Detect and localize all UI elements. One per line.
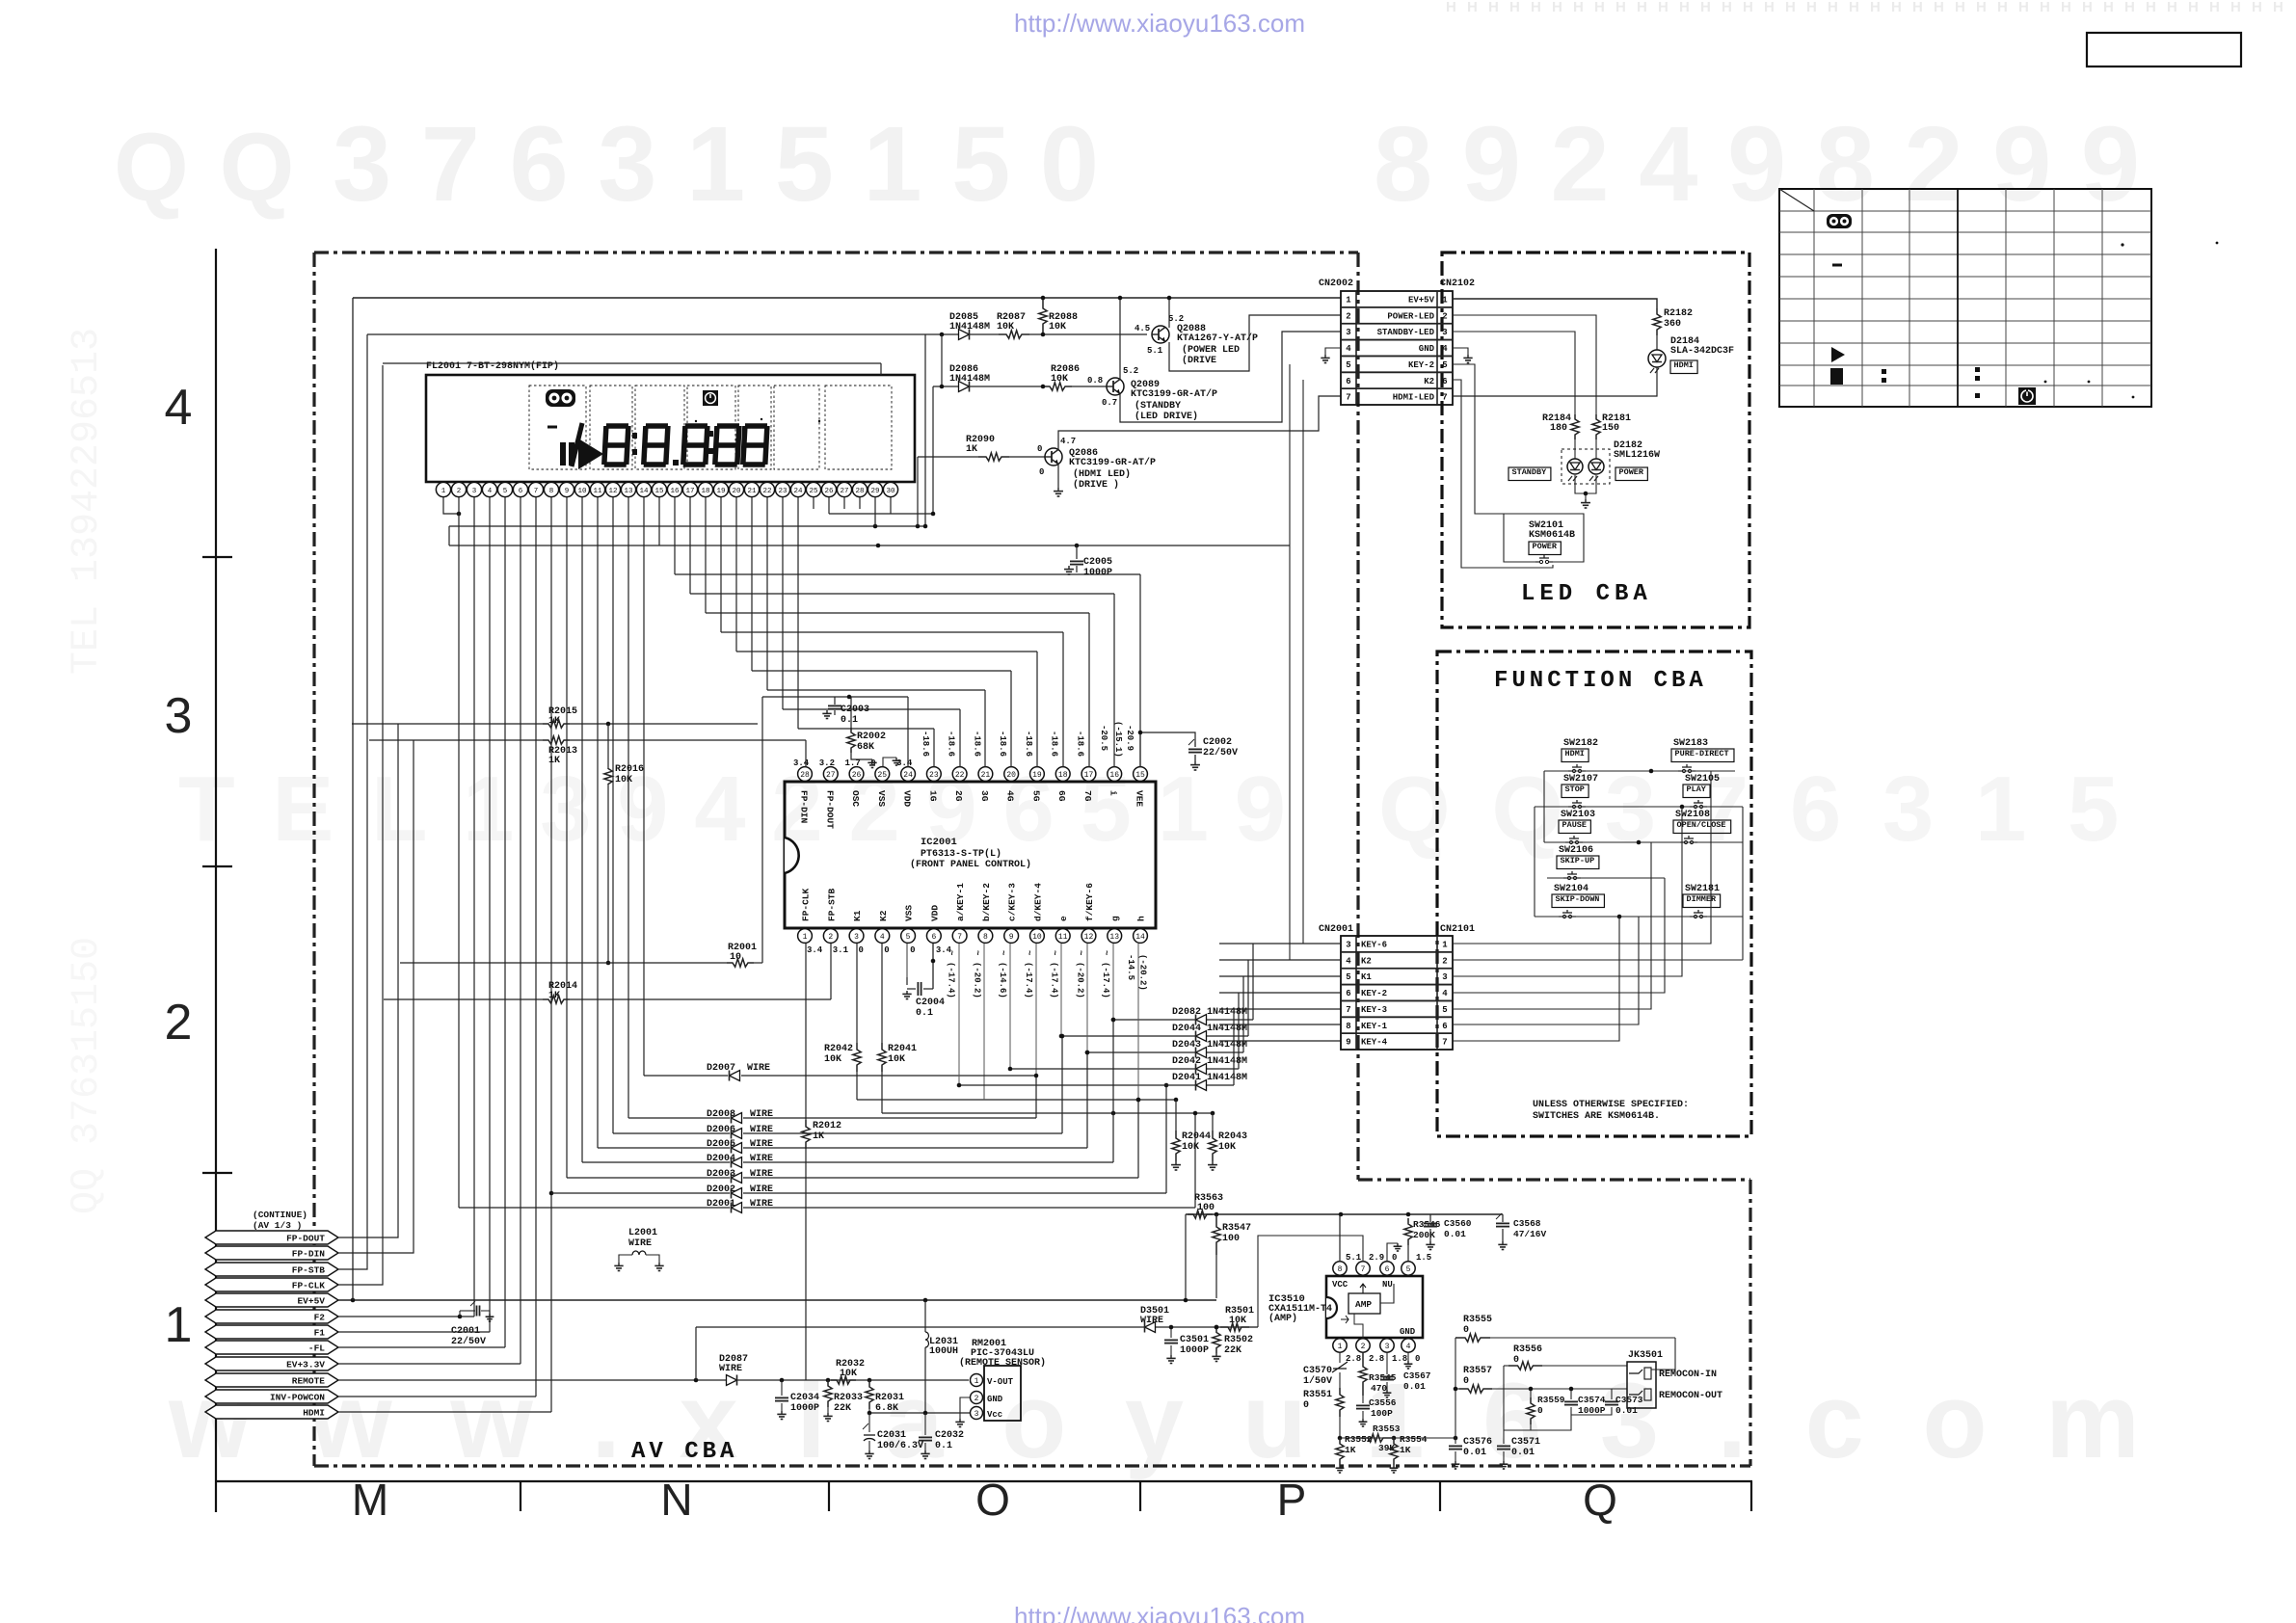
svg-text:7: 7 (1346, 393, 1350, 403)
svg-text:H: H (1594, 0, 1605, 15)
svg-text:GND: GND (987, 1395, 1003, 1404)
svg-text:3G: 3G (979, 790, 990, 802)
svg-text:c/KEY-3: c/KEY-3 (1007, 883, 1018, 921)
wire F1 row (338, 1331, 490, 1333)
Vcc rail (869, 1412, 970, 1414)
table dash symbol (1832, 264, 1842, 267)
wire HDMI row (338, 1411, 551, 1413)
wire REMOTE long (338, 1379, 969, 1381)
svg-text:SML1216W: SML1216W (1614, 450, 1660, 461)
svg-text:H: H (1806, 0, 1817, 15)
CN2102 pin4 ground (1453, 348, 1468, 355)
svg-text:(-14.6): (-14.6) (998, 962, 1007, 998)
svg-text:0: 0 (1039, 467, 1044, 477)
svg-text:19: 19 (1032, 771, 1042, 780)
wire horizontals into CN2001 (1219, 943, 1341, 945)
svg-text:5: 5 (503, 488, 508, 495)
wire FL pin4 vertical to F1 row (489, 497, 491, 1332)
wire stop/play row bus (1535, 806, 1743, 808)
svg-text:1: 1 (1442, 941, 1448, 950)
wire FP-DIN riser (338, 740, 414, 1253)
svg-text:H: H (1891, 0, 1902, 15)
svg-text:D2007: D2007 (707, 1063, 735, 1074)
svg-text:~: ~ (1024, 950, 1033, 955)
svg-text:1: 1 (441, 488, 446, 495)
svg-text:1000P: 1000P (1578, 1405, 1606, 1416)
svg-text:10K: 10K (1182, 1142, 1199, 1153)
resistor R2031 6.8K (866, 1380, 873, 1409)
svg-text:1: 1 (1442, 296, 1448, 306)
svg-text:4: 4 (1406, 1343, 1411, 1351)
net arrow F2 (205, 1310, 338, 1323)
capacitor C2004 0.1 (906, 977, 908, 985)
wire FP-CLK riser (338, 365, 383, 1285)
svg-text:H: H (2103, 0, 2114, 15)
svg-text:2G: 2G (953, 790, 964, 802)
svg-text:TEL 13942296513: TEL 13942296513 (66, 328, 109, 675)
svg-text:R2031: R2031 (875, 1393, 904, 1403)
wire skip-up row bus (1547, 877, 1665, 879)
table diagonal first cell (1779, 189, 1814, 211)
wire FL pin6 vertical to EV+3.3V row (520, 497, 521, 1364)
svg-text:24: 24 (793, 488, 803, 495)
svg-text:C3576: C3576 (1463, 1437, 1492, 1448)
svg-text:-18.6: -18.6 (1050, 731, 1059, 757)
svg-text:VSS: VSS (876, 790, 887, 807)
svg-text:6: 6 (1346, 377, 1350, 386)
wire left col vertical (1543, 771, 1545, 842)
svg-text:Q: Q (1583, 1475, 1617, 1525)
wire e pin11 down (983, 944, 985, 1100)
svg-text:STANDBY: STANDBY (1512, 467, 1548, 477)
svg-text:2.8: 2.8 (1369, 1354, 1384, 1364)
svg-text:4.5: 4.5 (1135, 324, 1150, 333)
resistor R3552 1K (1336, 1438, 1344, 1465)
wire CN2102 pin6 K2 to SW2101 (1453, 380, 1553, 568)
svg-text:LED CBA: LED CBA (1521, 581, 1652, 607)
wire FL pin28 stub (859, 497, 861, 509)
svg-text:H: H (1679, 0, 1690, 15)
resistor R2182 360 (1653, 308, 1661, 335)
LED D2184 SLA-342DC3F HDMI (1656, 335, 1658, 350)
svg-text:DIMMER: DIMMER (1687, 894, 1718, 904)
svg-text:REMOCON-OUT: REMOCON-OUT (1659, 1391, 1722, 1401)
FL2001 pins 1-30 (436, 482, 450, 496)
svg-text:7: 7 (1346, 1005, 1350, 1015)
svg-text:N: N (660, 1475, 692, 1525)
FL2001 digit 8 (a) (604, 426, 628, 465)
svg-text:b/KEY-2: b/KEY-2 (981, 883, 992, 921)
svg-text:-18.6: -18.6 (972, 731, 981, 757)
svg-text:SW2107: SW2107 (1563, 774, 1598, 785)
IC3510 internal wires (1360, 1284, 1366, 1293)
svg-text:7: 7 (1361, 1265, 1366, 1274)
svg-text:H: H (1615, 0, 1626, 15)
svg-text:(LED DRIVE): (LED DRIVE) (1135, 411, 1198, 422)
svg-text:R2044: R2044 (1182, 1131, 1211, 1142)
svg-text:1: 1 (165, 1297, 193, 1353)
net arrow FP-DOUT (205, 1231, 338, 1244)
svg-text:http://www.xiaoyu163.com: http://www.xiaoyu163.com (1014, 1602, 1305, 1623)
svg-text:R3559: R3559 (1537, 1395, 1565, 1405)
svg-text:27: 27 (826, 771, 836, 780)
svg-text:(STANDBY: (STANDBY (1135, 400, 1181, 412)
ruler tick bottom P/Q (1439, 1481, 1441, 1511)
svg-text:0: 0 (859, 945, 864, 955)
svg-text:6: 6 (1442, 1022, 1447, 1031)
wire key-1 riser (1453, 917, 1639, 1024)
svg-text:H: H (2167, 0, 2177, 15)
ground below R2002 (851, 753, 872, 759)
table dot row10 (2132, 396, 2135, 399)
svg-text:NU: NU (1382, 1280, 1393, 1290)
svg-text:8 9 2 4 9 8 2 9 9: 8 9 2 4 9 8 2 9 9 (1374, 105, 2140, 224)
svg-text:Q Q: Q Q (114, 114, 296, 222)
IC3510 notch (1326, 1297, 1337, 1318)
wire FP-CLK pin1 down / R2012 (805, 944, 807, 1120)
svg-text:C2031: C2031 (877, 1430, 906, 1441)
svg-text:7G: 7G (1082, 790, 1093, 802)
capacitor C2031 100/6.3V polarized (868, 1413, 870, 1432)
wire key-3 riser (1453, 842, 1651, 1009)
transistor Q2088 KTA1267-Y-AT/P power led drive (1152, 326, 1169, 343)
wire FL pin5 vertical to -FL row (504, 497, 506, 1347)
svg-text:100UH: 100UH (929, 1346, 958, 1357)
label STANDBY box (1508, 467, 1551, 481)
svg-text:16: 16 (1109, 771, 1119, 780)
net arrow F1 (205, 1325, 338, 1339)
wire R3555 to jack (1651, 1338, 1675, 1370)
svg-text:4: 4 (1346, 344, 1351, 354)
revision box top right (2087, 33, 2241, 67)
svg-text:C3573: C3573 (1615, 1395, 1643, 1405)
svg-text:2: 2 (165, 995, 193, 1051)
wire key-2 riser (1453, 878, 1665, 993)
svg-text:-18.6: -18.6 (1024, 731, 1033, 757)
svg-text:H: H (2230, 0, 2241, 15)
svg-text:H: H (2061, 0, 2071, 15)
svg-text:Vcc: Vcc (987, 1410, 1002, 1420)
svg-text:D2043 1N4148M: D2043 1N4148M (1172, 1040, 1247, 1051)
svg-text:SKIP-DOWN: SKIP-DOWN (1556, 894, 1600, 904)
svg-text:3 7 6 3 1 5 1 5 0: 3 7 6 3 1 5 1 5 0 (333, 105, 1099, 224)
svg-text:(POWER LED: (POWER LED (1182, 344, 1240, 356)
capacitor C3556 100P (1362, 1396, 1364, 1403)
LED standby (1574, 439, 1576, 459)
svg-text:1: 1 (803, 933, 808, 942)
svg-text:VEE: VEE (1135, 790, 1145, 807)
svg-text:PT6313-S-TP(L): PT6313-S-TP(L) (921, 848, 1001, 860)
FL2001 digit 8 (e) (743, 426, 767, 465)
wire FL pin11 vertical to D2005 row (597, 497, 599, 1148)
svg-text:KEY-2: KEY-2 (1361, 989, 1387, 998)
svg-text:O: O (975, 1475, 1010, 1525)
svg-text:1: 1 (1346, 296, 1351, 306)
wire D2184 cathode to CN2102 pin7 (1453, 367, 1657, 396)
svg-text:INV-POWCON: INV-POWCON (270, 1393, 325, 1403)
svg-text:K2: K2 (878, 910, 889, 921)
svg-text:H: H (1849, 0, 1859, 15)
svg-text:11: 11 (593, 488, 602, 495)
svg-text:SLA-342DC3F: SLA-342DC3F (1670, 346, 1734, 357)
front panel control IC2001 outline (785, 782, 1156, 928)
svg-text:H: H (2146, 0, 2156, 15)
capacitor C3568 47/16V polarized (1502, 1214, 1504, 1222)
svg-text:SW2181: SW2181 (1685, 884, 1720, 894)
svg-text:KEY-2: KEY-2 (1408, 360, 1434, 370)
svg-text:68K: 68K (857, 742, 874, 753)
svg-text:0: 0 (910, 945, 915, 955)
svg-text:100/6.3V: 100/6.3V (877, 1440, 923, 1451)
svg-text:10K: 10K (824, 1054, 841, 1065)
svg-text:5: 5 (906, 933, 911, 942)
svg-text:180: 180 (1550, 423, 1567, 434)
svg-text:H: H (2124, 0, 2135, 15)
svg-text:CN2001: CN2001 (1319, 924, 1353, 935)
svg-text:H: H (1509, 0, 1520, 15)
svg-text:C3571: C3571 (1511, 1437, 1540, 1448)
svg-text:VDD: VDD (902, 790, 913, 807)
resistor R2044 10K (1175, 1100, 1177, 1131)
FL2001 segment group dashed boxes (529, 386, 586, 469)
svg-text:H: H (1743, 0, 1753, 15)
svg-text:H: H (1976, 0, 1987, 15)
net arrow FP-DIN (205, 1246, 338, 1260)
wire FL pin25 stub (813, 497, 814, 509)
table small dots row9 (2044, 381, 2047, 384)
transistor Q2086 KTC3199-GR-AT/P hdmi led drive (1045, 448, 1062, 466)
CN2002 pin4 ground (1325, 348, 1341, 355)
svg-text:KTC3199-GR-AT/P: KTC3199-GR-AT/P (1069, 457, 1156, 468)
svg-text:IC2001: IC2001 (921, 837, 957, 848)
svg-text:0: 0 (884, 945, 889, 955)
svg-text:SW2182: SW2182 (1563, 738, 1598, 749)
svg-text:5: 5 (1406, 1265, 1411, 1274)
svg-text:(DRIVE ): (DRIVE ) (1073, 479, 1119, 491)
wire pin7 to amp input net (1258, 1236, 1363, 1327)
wires CN2002 keys down to function area (1289, 364, 1291, 545)
svg-text:3: 3 (854, 933, 859, 942)
wire VDD pin6 node (932, 944, 934, 989)
svg-text:1K: 1K (548, 756, 560, 766)
svg-text:-FL: -FL (308, 1344, 325, 1354)
resistor R3559 0 (1530, 1389, 1532, 1397)
svg-text:P: P (1277, 1475, 1307, 1525)
IC2001 notch (785, 838, 799, 873)
power rail for IC3510 (1186, 1213, 1503, 1215)
svg-text:25: 25 (878, 771, 888, 780)
svg-text:R3555: R3555 (1463, 1315, 1492, 1325)
svg-text:h: h (1136, 916, 1147, 921)
net arrow INV-POWCON (205, 1390, 338, 1403)
svg-text:C2004: C2004 (916, 998, 945, 1008)
table colon icon col5 (1975, 367, 1980, 372)
svg-text:http://www.xiaoyu163.com: http://www.xiaoyu163.com (1014, 9, 1305, 38)
svg-text:POWER: POWER (1533, 542, 1558, 551)
FL2001 digit 1 (572, 423, 582, 466)
svg-text:SW2108: SW2108 (1675, 810, 1710, 820)
svg-text:H: H (1467, 0, 1478, 15)
svg-text:6: 6 (1385, 1265, 1390, 1274)
wire FL pin2 vertical to D2001 row (458, 497, 460, 1208)
capacitor C3501 1000P (1170, 1327, 1172, 1338)
svg-text:15: 15 (1135, 771, 1145, 780)
table colon icon col3 (1882, 369, 1886, 374)
svg-text:2: 2 (457, 488, 462, 495)
svg-text:(CONTINUE): (CONTINUE) (253, 1210, 307, 1220)
wire key-6 riser (1453, 771, 1711, 944)
svg-text:0: 0 (1463, 1376, 1469, 1387)
svg-text:R3551: R3551 (1303, 1390, 1332, 1400)
svg-text:-18.6: -18.6 (998, 731, 1007, 757)
svg-text:(-20.2): (-20.2) (1138, 954, 1148, 991)
svg-text:3: 3 (472, 488, 477, 495)
svg-text:10: 10 (577, 488, 587, 495)
svg-text:FP-CLK: FP-CLK (292, 1281, 326, 1291)
svg-text:-18.6: -18.6 (947, 731, 956, 757)
svg-text:H: H (1722, 0, 1732, 15)
svg-text:22: 22 (762, 488, 771, 495)
svg-text:H: H (2018, 0, 2029, 15)
FL2001 small dots (695, 420, 697, 422)
svg-text:F2: F2 (314, 1313, 326, 1323)
wire FL pin14 vertical to D2007 row (643, 497, 645, 1076)
svg-text:22/50V: 22/50V (1203, 747, 1238, 758)
wire Q2086 collector to HDMI-LED (1058, 396, 1341, 450)
svg-text:D2044 1N4148M: D2044 1N4148M (1172, 1024, 1247, 1034)
svg-text:16: 16 (670, 488, 680, 495)
svg-text:14: 14 (1135, 933, 1145, 942)
svg-text:18: 18 (701, 488, 709, 495)
svg-text:R3545: R3545 (1369, 1372, 1397, 1383)
RM2001 pin2 GND (971, 1392, 983, 1404)
svg-text:4: 4 (880, 933, 885, 942)
svg-text:3: 3 (1346, 941, 1350, 950)
IC2001 top pins 28-15 (798, 767, 813, 782)
svg-text:C2005: C2005 (1083, 557, 1112, 568)
wire rail to IC3510 pin8 (1339, 1214, 1341, 1262)
svg-text:10K: 10K (1218, 1142, 1236, 1153)
svg-text:20: 20 (732, 488, 741, 495)
svg-text:HDMI: HDMI (303, 1408, 325, 1419)
resistor R2041 10K on K2 (881, 944, 883, 1043)
svg-text:470: 470 (1371, 1383, 1387, 1394)
net arrow EV+5V (205, 1293, 338, 1307)
svg-text:FP-STB: FP-STB (292, 1265, 326, 1276)
svg-text:CN2102: CN2102 (1440, 279, 1475, 289)
svg-text:2: 2 (1361, 1343, 1366, 1351)
svg-text:GND: GND (1419, 344, 1435, 354)
svg-text:H: H (2082, 0, 2093, 15)
svg-text:CN2002: CN2002 (1319, 279, 1353, 289)
wire R2001 riser to VDD rail (761, 697, 763, 963)
svg-text:KSM0614B: KSM0614B (1529, 530, 1575, 541)
IC3510 bottom pins (1333, 1339, 1347, 1352)
svg-text:1K: 1K (1345, 1445, 1356, 1455)
svg-text:8: 8 (1338, 1265, 1343, 1274)
svg-text:-14.5: -14.5 (1126, 954, 1135, 980)
svg-text:23: 23 (778, 488, 788, 495)
svg-text:C3574: C3574 (1578, 1395, 1606, 1405)
svg-text:GND: GND (1400, 1327, 1416, 1337)
capacitor C2001 22/50V (459, 1311, 461, 1317)
svg-text:H: H (2273, 0, 2283, 15)
svg-text:WIRE: WIRE (628, 1238, 652, 1249)
capacitor C3573 0.01 (1611, 1393, 1613, 1399)
svg-text:360: 360 (1664, 319, 1681, 330)
svg-text:F1: F1 (314, 1328, 326, 1339)
svg-text:R3502: R3502 (1224, 1335, 1253, 1345)
svg-text:5.1: 5.1 (1147, 346, 1163, 356)
svg-text:FP-CLK: FP-CLK (801, 888, 812, 921)
svg-text:C2032: C2032 (935, 1430, 964, 1441)
net arrow REMOTE (205, 1373, 338, 1387)
svg-text:0: 0 (1513, 1355, 1519, 1366)
AV CBA board outline (dash-dot) (314, 251, 1358, 253)
svg-text:18: 18 (1058, 771, 1068, 780)
svg-text:VDD: VDD (929, 905, 940, 921)
svg-text:29: 29 (870, 488, 879, 495)
page border bottom ruler line (216, 1480, 1752, 1482)
wire FL pin3 vertical to F2 row (473, 497, 475, 1317)
svg-text:0: 0 (1303, 1400, 1309, 1411)
wire D2086 row drop at FL edge (932, 386, 934, 514)
svg-text:28: 28 (800, 771, 810, 780)
svg-text:H: H (1934, 0, 1944, 15)
capacitor C2005 1000P (1076, 545, 1078, 559)
svg-text:23: 23 (929, 771, 939, 780)
svg-text:AV CBA: AV CBA (631, 1439, 737, 1465)
wire EV+5V long (338, 1299, 1216, 1301)
svg-text:FUNCTION CBA: FUNCTION CBA (1494, 668, 1707, 694)
wire FP-DOUT riser (338, 724, 398, 1237)
svg-text:R2033: R2033 (834, 1393, 863, 1403)
capacitor C3571 0.01 (1503, 1435, 1505, 1444)
wire VEE pin15 to C2002 (1140, 732, 1195, 767)
svg-text:1/50V: 1/50V (1303, 1375, 1332, 1387)
svg-text:POWER-LED: POWER-LED (1387, 311, 1434, 321)
svg-text:11: 11 (1058, 933, 1068, 942)
svg-text:3.2: 3.2 (819, 758, 835, 768)
svg-text:EV+5V: EV+5V (297, 1296, 325, 1307)
wire K1 riser (1453, 807, 1682, 976)
wire CN2102 pin2 to R2181 (1453, 315, 1596, 414)
svg-text:0.01: 0.01 (1511, 1448, 1535, 1458)
svg-text:(-17.4): (-17.4) (1024, 962, 1033, 998)
svg-text:FP-STB: FP-STB (826, 888, 837, 921)
wires D200x right bends up to key lines (1035, 1076, 1037, 1118)
capacitor C3560 0.01 (1429, 1214, 1431, 1222)
svg-text:28: 28 (855, 488, 864, 495)
svg-text:EV+3.3V: EV+3.3V (286, 1360, 325, 1370)
wire Q2088 collector to CN2002 pin2 (1169, 315, 1341, 371)
svg-text:1: 1 (1338, 1343, 1343, 1351)
svg-text:5G: 5G (1030, 790, 1041, 802)
net arrow FP-CLK (205, 1278, 338, 1291)
svg-text:H: H (2209, 0, 2220, 15)
FL2001 digit 8 (d) (715, 426, 739, 465)
key bus K1 (857, 1099, 1176, 1101)
svg-text:22K: 22K (834, 1403, 851, 1414)
wire FL pin10 vertical to D2004 row (581, 497, 583, 1162)
svg-text:4: 4 (1346, 956, 1351, 966)
wire FL pin26-30 link (828, 497, 830, 514)
resistor R2012 1K (802, 1120, 810, 1149)
svg-text:6: 6 (1346, 989, 1350, 998)
table cassette icon (1827, 214, 1852, 228)
svg-text:13: 13 (1109, 933, 1119, 942)
svg-text:6: 6 (931, 933, 936, 942)
